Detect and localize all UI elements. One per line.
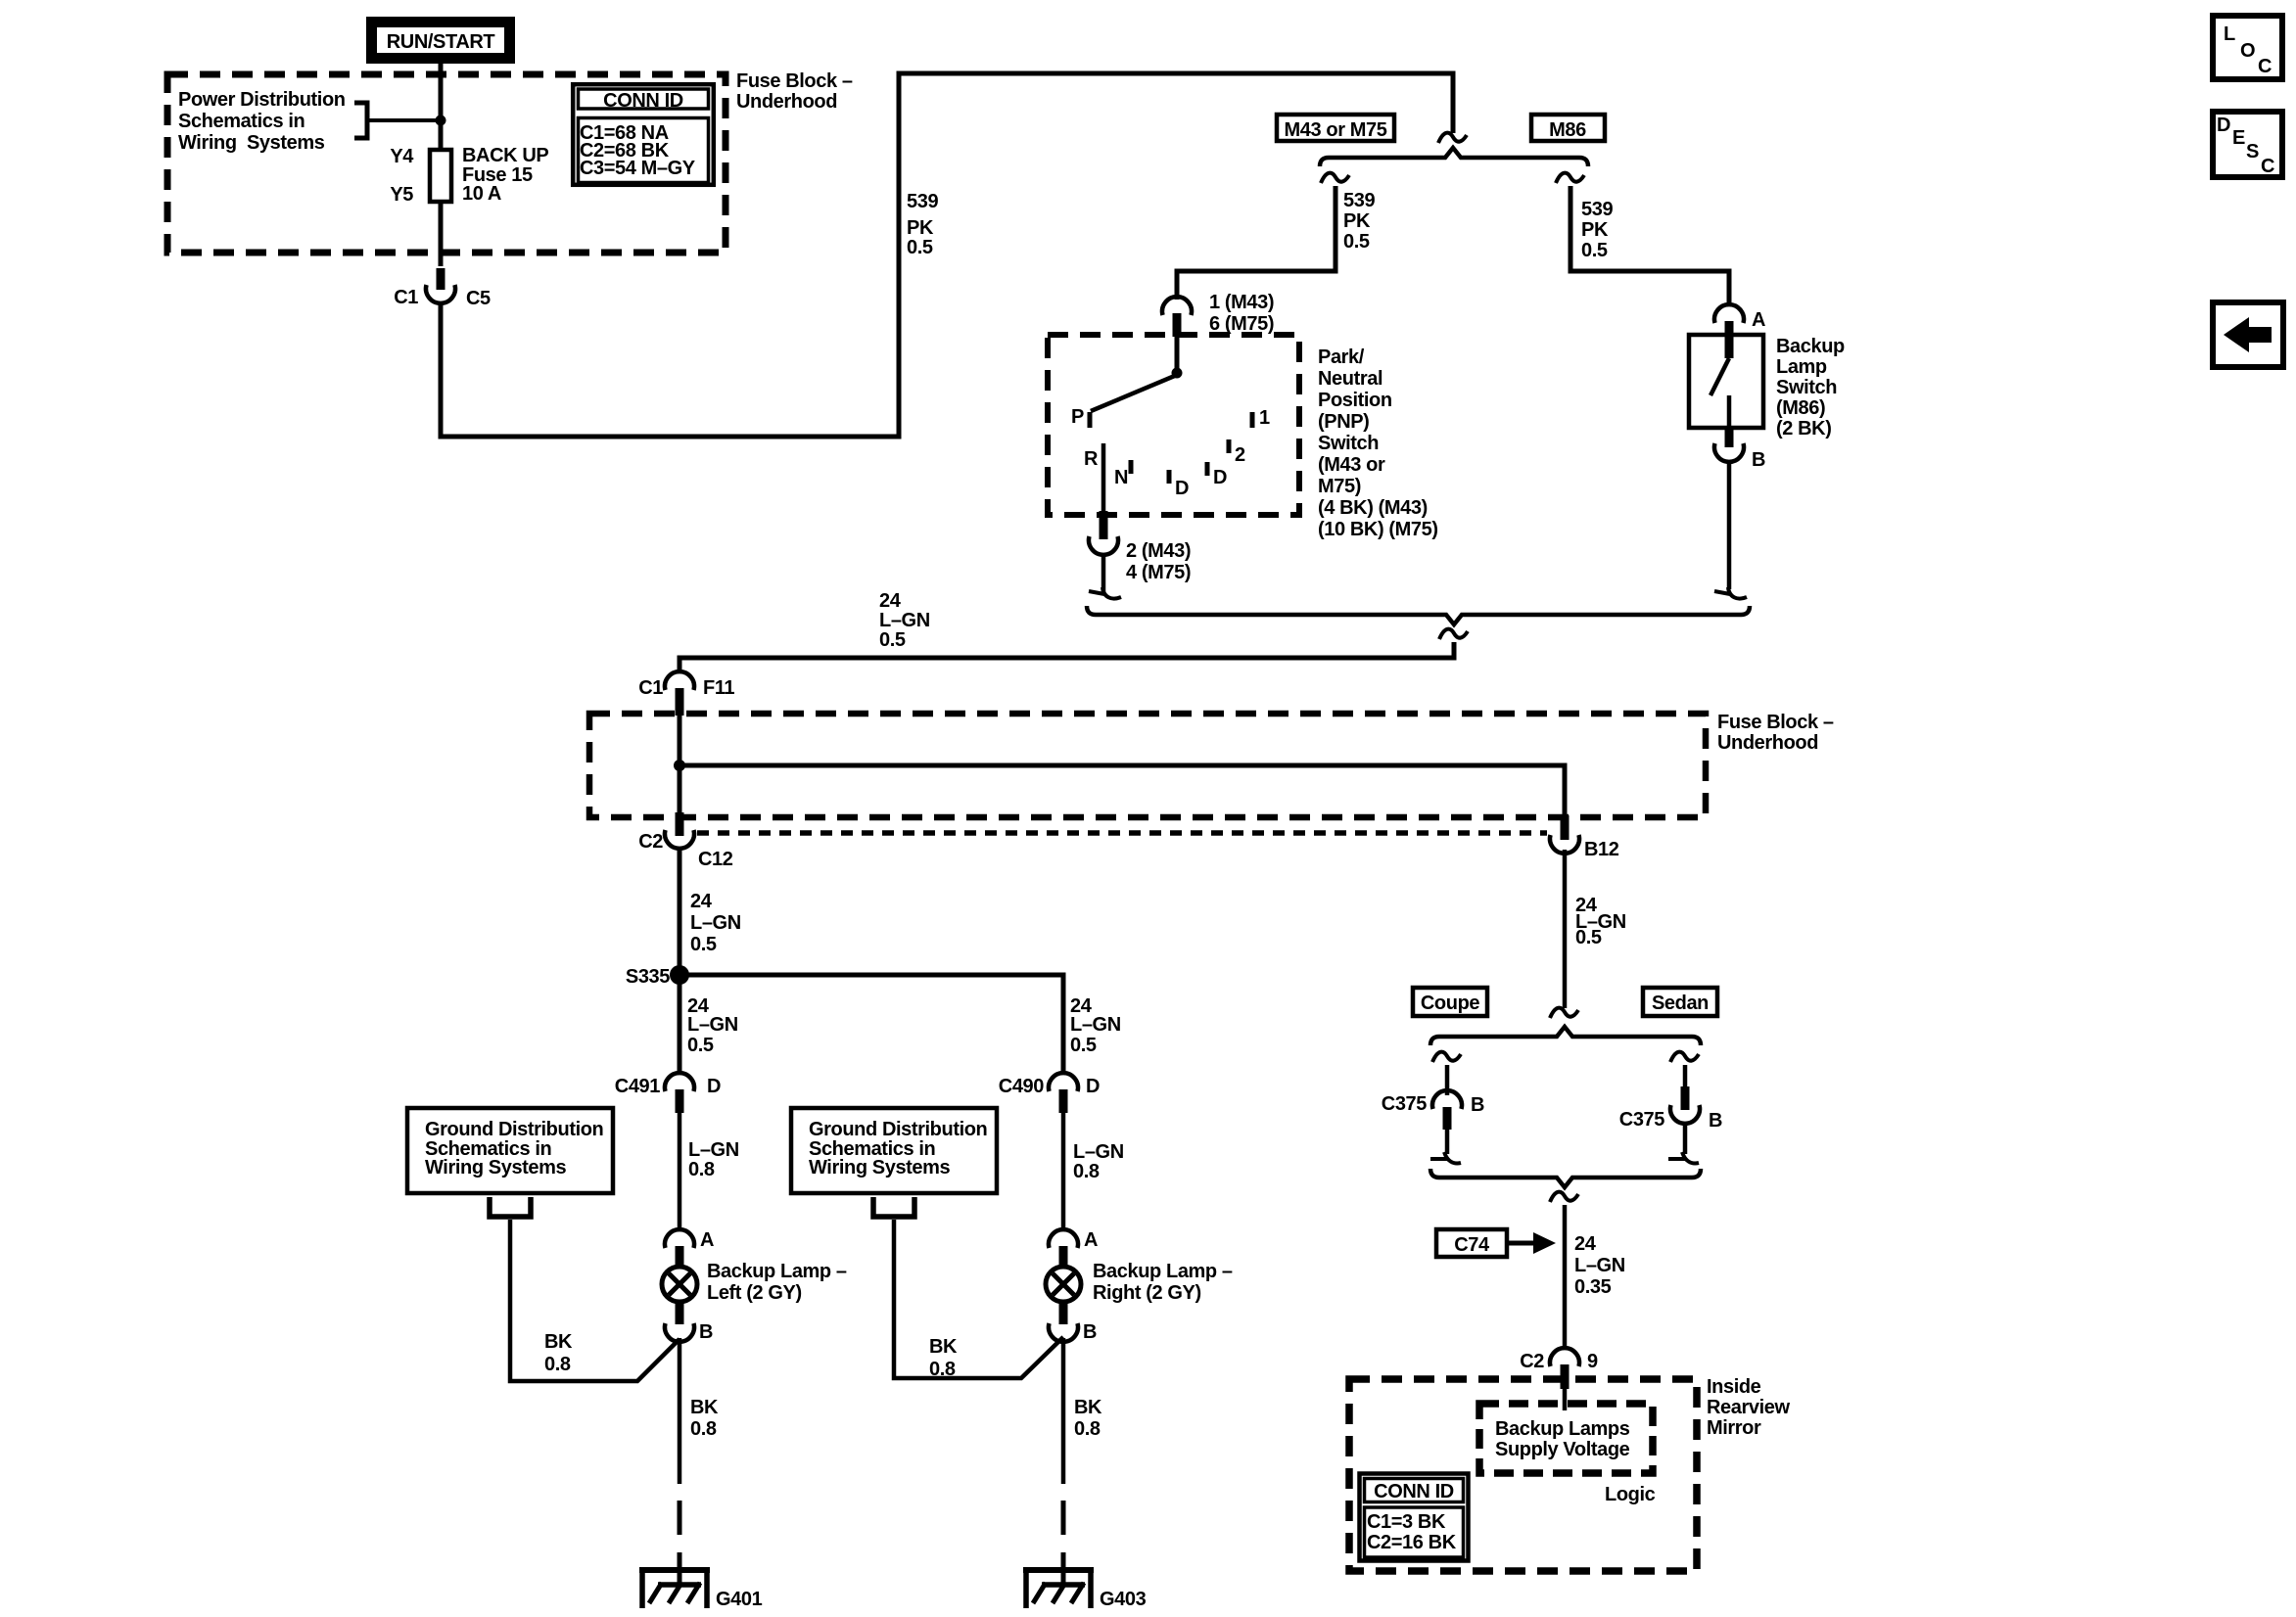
svg-text:R: R [1084,448,1099,470]
svg-text:M43 or M75: M43 or M75 [1285,119,1387,141]
brace splitting to M43/M75 and M86 [1320,148,1588,166]
svg-text:D: D [1213,467,1227,488]
wire B12 to coupe/sedan split [1563,850,1568,1008]
pin below C490 [1059,1089,1068,1113]
pin above C2/C12 [676,812,684,836]
svg-text:Position: Position [1318,390,1392,411]
wire right lamp B to ground [1061,1338,1066,1484]
wire label L-GN 0.8 (left) [688,1139,739,1180]
svg-text:Y4: Y4 [390,146,414,167]
squiggle at left branch start [1321,173,1349,183]
svg-text:L–GN: L–GN [687,1014,738,1036]
svg-text:539: 539 [1581,199,1613,220]
svg-text:2: 2 [1235,444,1245,466]
squiggle sedan branch [1670,1052,1699,1062]
merge brace coupe/sedan [1430,1169,1701,1187]
svg-text:0.8: 0.8 [690,1418,717,1440]
svg-text:B: B [699,1321,713,1343]
connector A (left lamp) [665,1229,714,1251]
svg-text:PK: PK [1581,219,1609,241]
contact D (second) [1205,462,1210,476]
merge brace to single wire [1087,606,1750,624]
wire fuse to connector C1/C5 [439,202,444,266]
wire into switch [1175,337,1180,370]
svg-text:2 (M43): 2 (M43) [1126,540,1191,562]
end hook of switch wire [1714,587,1747,599]
wire coupe C375 down [1445,1130,1450,1154]
svg-text:Switch: Switch [1318,433,1379,454]
svg-text:L–GN: L–GN [688,1139,739,1161]
wire left branch to PNP switch [1177,186,1335,300]
connector C2 9 (mirror) [1520,1348,1598,1372]
svg-text:0.5: 0.5 [690,934,717,955]
connector B (left lamp) [665,1321,713,1343]
svg-text:0.5: 0.5 [907,237,933,258]
pin below right lamp [1059,1302,1068,1324]
pin below C491 [676,1089,684,1113]
dashed wire to G401 [678,1501,682,1535]
wire label BK 0.8 (left ground lead) [690,1397,719,1440]
connector 1 (M43) 6 (M75) [1162,292,1274,335]
svg-text:Schematics in: Schematics in [178,111,305,132]
svg-text:L–GN: L–GN [879,610,930,631]
svg-text:D: D [1175,478,1189,499]
wire C12 to S335 [678,850,682,969]
svg-text:(2 BK): (2 BK) [1776,418,1832,439]
svg-text:BK: BK [1074,1397,1102,1418]
note Power Distribution Schematics in Wiring Systems [178,89,346,154]
inside rearview mirror dashed box [1349,1379,1697,1571]
LOC reference box [2213,16,2282,79]
wire label 539 PK 0.5 (left branch) [1343,190,1375,253]
svg-text:PK: PK [1343,210,1371,232]
svg-text:(M43 or: (M43 or [1318,454,1385,476]
end hook sedan wire [1668,1152,1699,1164]
svg-text:C491: C491 [615,1076,660,1097]
svg-text:C1=3 BK: C1=3 BK [1367,1511,1446,1533]
svg-text:Mirror: Mirror [1707,1417,1761,1439]
svg-text:D: D [2217,115,2230,136]
svg-text:Underhood: Underhood [736,91,837,113]
contact D (first) [1167,470,1172,484]
contact 1 [1250,412,1255,428]
backup lamp switch box M86 [1689,335,1763,428]
svg-text:Ground Distribution: Ground Distribution [425,1119,603,1140]
svg-text:0.8: 0.8 [1074,1418,1101,1440]
svg-text:O: O [2240,40,2256,62]
pin above B12 [1561,815,1570,840]
label Backup Lamp Switch (M86) (2 BK) [1776,336,1845,439]
pin below C1/F11 [676,688,684,716]
switch blade [1710,358,1729,395]
pin above right lamp [1059,1246,1068,1267]
label Fuse Block - Underhood (middle) [1717,712,1834,754]
contact N [1129,460,1134,474]
svg-text:C490: C490 [999,1076,1044,1097]
svg-text:N: N [1114,467,1128,488]
svg-text:0.8: 0.8 [544,1354,571,1375]
bracket below left ground note [490,1197,531,1217]
wire merge to C2/9 [1563,1205,1568,1349]
junction dot in fuse block [674,760,685,771]
svg-text:24: 24 [879,590,902,612]
connector C491 D [615,1073,721,1097]
wire branch to B12 [679,765,1565,815]
svg-text:A: A [1084,1229,1098,1251]
pin above sedan C375 [1681,1086,1690,1110]
wire C491 to lamp A [678,1113,682,1231]
svg-text:0.5: 0.5 [879,629,906,651]
svg-text:Power Distribution: Power Distribution [178,89,346,111]
backup lamps supply voltage dashed box [1479,1404,1653,1473]
svg-text:Supply Voltage: Supply Voltage [1495,1439,1630,1460]
svg-text:Wiring Systems: Wiring Systems [178,132,325,154]
svg-text:9: 9 [1587,1351,1598,1372]
svg-text:BACK UP: BACK UP [462,145,548,166]
svg-text:Ground Distribution: Ground Distribution [809,1119,987,1140]
switch lower contact [1727,395,1732,428]
wire label L-GN 0.8 (right) [1073,1141,1124,1182]
label Park/Neutral Position (PNP) Switch [1318,346,1438,540]
svg-text:24: 24 [1574,1233,1597,1255]
label box M86 [1531,115,1605,141]
label box Sedan [1643,988,1717,1016]
ground G403 [1023,1567,1147,1610]
svg-text:Sedan: Sedan [1652,993,1709,1014]
svg-text:A: A [1752,309,1765,331]
note box Ground Distribution (left) [407,1108,613,1193]
splice S335 [626,965,689,988]
wire right branch to backup lamp switch [1570,186,1729,305]
connector B12 [1550,835,1619,860]
svg-text:B: B [1083,1321,1097,1343]
ground G401 [639,1567,763,1610]
wire S335 branch to right lamp [679,975,1063,1073]
svg-text:Fuse Block –: Fuse Block – [1717,712,1834,733]
svg-text:Rearview: Rearview [1707,1397,1790,1418]
svg-text:M75): M75) [1318,476,1361,497]
svg-text:C1: C1 [394,287,418,308]
svg-text:BK: BK [544,1331,573,1353]
svg-text:539: 539 [1343,190,1375,211]
svg-text:C2=16 BK: C2=16 BK [1367,1532,1457,1553]
svg-text:C2: C2 [638,831,663,853]
wire through middle fuse block [678,716,682,812]
wire right ground note to lamp B [894,1220,1063,1378]
svg-text:Backup Lamp –: Backup Lamp – [707,1261,847,1282]
svg-text:6 (M75): 6 (M75) [1209,313,1274,335]
pin below PNP switch [1100,511,1108,539]
squiggle below merge brace [1550,1192,1578,1202]
squiggle coupe branch [1432,1052,1461,1062]
svg-text:BK: BK [690,1397,719,1418]
label box M43 or M75 [1277,115,1394,141]
svg-text:C12: C12 [698,849,733,870]
svg-text:Backup: Backup [1776,336,1845,357]
svg-text:C1: C1 [638,677,663,699]
svg-text:CONN ID: CONN ID [1374,1481,1454,1502]
svg-text:1 (M43): 1 (M43) [1209,292,1274,313]
wire from switch B down [1727,463,1732,589]
label Inside Rearview Mirror [1707,1376,1790,1439]
pin below coupe C375 [1443,1107,1452,1130]
wire coupe branch [1445,1065,1450,1095]
svg-text:Park/: Park/ [1318,346,1365,368]
wire C5 to top bus and over to split [441,73,1453,437]
svg-text:Wiring Systems: Wiring Systems [425,1157,567,1178]
svg-text:Fuse Block –: Fuse Block – [736,70,853,92]
svg-text:C74: C74 [1454,1234,1490,1256]
pin below backup lamp switch [1725,428,1734,447]
svg-text:L–GN: L–GN [1574,1255,1625,1276]
svg-text:CONN ID: CONN ID [603,90,683,112]
connector C375 B (coupe) [1382,1090,1484,1116]
bracket from note to wire [354,103,441,138]
svg-text:F11: F11 [703,677,734,699]
wire label 539 PK 0.5 (feed) [907,191,938,258]
svg-text:0.5: 0.5 [1343,231,1370,253]
svg-text:(4 BK) (M43): (4 BK) (M43) [1318,497,1428,519]
CONN ID table (mirror) [1360,1474,1469,1561]
bracket below right ground note [873,1197,914,1217]
svg-text:D: D [1086,1076,1100,1097]
junction dot at fuse feed [436,115,446,126]
power source box RUN/START [370,21,511,60]
connector B at backup lamp switch [1714,443,1765,471]
svg-text:1: 1 [1259,407,1270,429]
pin above left lamp [676,1246,684,1267]
fuse block underhood dashed box (top) [167,74,726,253]
label Backup Lamp - Left (2 GY) [707,1261,847,1304]
svg-text:24: 24 [690,891,713,912]
end hook of PNP wire [1089,587,1121,599]
svg-text:10 A: 10 A [462,183,501,205]
dotted connector line C12 to B12 [697,830,1547,836]
svg-text:C2: C2 [1520,1351,1544,1372]
label Backup Lamp - Right (2 GY) [1093,1261,1233,1304]
wire label 24 L-GN 0.35 [1574,1233,1625,1298]
svg-text:BK: BK [929,1336,958,1358]
connector B (right lamp) [1049,1321,1097,1343]
connector A (right lamp) [1049,1229,1098,1251]
svg-text:C: C [2261,156,2274,177]
svg-text:M86: M86 [1549,119,1586,141]
wire from PNP connector down [1101,554,1106,595]
wire label 24 L-GN 0.5 (left lamp) [687,995,738,1056]
label box Coupe [1413,988,1487,1016]
wire left ground note to lamp B [510,1220,679,1381]
svg-text:Coupe: Coupe [1421,993,1479,1014]
svg-text:0.5: 0.5 [687,1035,714,1056]
wire label 539 PK 0.5 (right branch) [1581,199,1613,261]
svg-text:Y5: Y5 [390,184,413,206]
svg-text:0.8: 0.8 [929,1359,956,1380]
svg-text:PK: PK [907,217,934,239]
label box C74 with arrow [1436,1229,1556,1257]
wire label BK 0.8 (right ground lead) [1074,1397,1102,1440]
connector C375 B (sedan) [1619,1105,1722,1132]
svg-text:S: S [2246,141,2259,162]
connector 2 (M43) 4 (M75) [1089,536,1191,583]
contact P [1088,412,1093,428]
wire label 24 L-GN 0.5 (C12) [690,891,741,955]
pin at C1/C5 [437,268,445,290]
backup lamp - left [662,1267,697,1302]
svg-text:0.35: 0.35 [1574,1276,1612,1298]
svg-text:0.5: 0.5 [1070,1035,1097,1056]
svg-text:Switch: Switch [1776,377,1837,398]
svg-text:C: C [2258,56,2272,77]
svg-text:P: P [1071,406,1084,428]
wire label 24 L-GN 0.5 (right lamp) [1070,995,1121,1056]
PNP switch dashed box [1048,335,1299,515]
svg-text:0.5: 0.5 [1575,927,1602,948]
svg-text:539: 539 [907,191,938,212]
connector C2/C12 [638,830,733,870]
crossover squiggle at bus split [1438,133,1467,143]
switch arm to P [1091,375,1177,411]
squiggle above coupe/sedan brace [1550,1008,1578,1018]
svg-text:C375: C375 [1619,1109,1664,1131]
DESC reference box [2213,112,2282,177]
label Fuse Block - Underhood (top) [736,70,853,113]
svg-text:A: A [700,1229,714,1251]
connector C1/C5 [394,285,491,309]
svg-text:Wiring Systems: Wiring Systems [809,1157,951,1178]
svg-text:0.8: 0.8 [1073,1161,1100,1182]
label Backup Lamps Supply Voltage [1495,1418,1630,1460]
connector A at backup lamp switch [1714,304,1765,331]
svg-text:L–GN: L–GN [690,912,741,934]
split brace coupe/sedan [1430,1027,1701,1045]
wire sedan C375 down [1683,1122,1688,1154]
svg-text:L–GN: L–GN [1073,1141,1124,1163]
wire RUN/START to fuse [439,60,444,148]
backup lamp - right [1046,1267,1081,1302]
pin below C2/9 [1561,1364,1570,1389]
svg-text:Backup Lamp –: Backup Lamp – [1093,1261,1233,1282]
svg-text:0.8: 0.8 [688,1159,715,1180]
svg-text:E: E [2232,127,2245,149]
svg-text:Underhood: Underhood [1717,732,1818,754]
note box Ground Distribution (right) [791,1108,997,1193]
svg-text:S335: S335 [626,966,670,988]
svg-text:B: B [1471,1094,1484,1116]
svg-text:B12: B12 [1584,839,1619,860]
squiggle below merge brace [1439,629,1468,639]
wire left lamp B to ground [678,1338,682,1484]
fuse block underhood dashed box (middle) [589,714,1706,817]
squiggle at right branch start [1556,173,1584,183]
svg-text:4 (M75): 4 (M75) [1126,562,1191,583]
dashed wire to G403 [1061,1501,1066,1535]
back arrow box [2213,302,2283,367]
pin below left lamp [676,1302,684,1324]
svg-text:L: L [2224,23,2235,45]
pin into PNP switch [1173,313,1182,337]
svg-text:B: B [1752,449,1765,471]
wire S335 down left lamp [678,975,682,1073]
fuse BACK UP Fuse 15 10A [430,150,451,202]
svg-text:B: B [1709,1110,1722,1132]
svg-text:RUN/START: RUN/START [387,31,495,53]
wire label BK 0.8 (right bend) [929,1336,958,1380]
svg-text:Lamp: Lamp [1776,356,1827,378]
svg-text:L–GN: L–GN [1070,1014,1121,1036]
svg-text:Logic: Logic [1605,1484,1656,1505]
connector C490 D [999,1073,1100,1097]
svg-text:Neutral: Neutral [1318,368,1382,390]
wire label 24 L-GN 0.5 (to F11) [879,590,930,651]
contact R wire through box [1101,443,1106,515]
contact 2 [1227,439,1232,453]
svg-text:(10 BK) (M75): (10 BK) (M75) [1318,519,1438,540]
end hook coupe wire [1430,1152,1461,1164]
wire merge to C1/F11 [679,642,1454,673]
wire sedan branch [1683,1065,1688,1088]
svg-text:(PNP): (PNP) [1318,411,1369,433]
svg-text:Inside: Inside [1707,1376,1761,1398]
svg-text:G401: G401 [716,1589,763,1610]
svg-text:0.5: 0.5 [1581,240,1608,261]
CONN ID table (fuse block underhood) [573,84,714,185]
wire label 24 L-GN 0.5 (B12) [1575,895,1626,948]
svg-text:Right (2 GY): Right (2 GY) [1093,1282,1201,1304]
svg-text:C5: C5 [466,288,491,309]
svg-text:(M86): (M86) [1776,397,1825,419]
fuse value label [462,145,548,205]
junction dot in PNP switch [1172,368,1183,379]
svg-text:G403: G403 [1100,1589,1147,1610]
svg-text:C3=54 M–GY: C3=54 M–GY [580,158,696,179]
svg-text:D: D [707,1076,721,1097]
wire C490 to lamp A [1061,1113,1066,1231]
wire into mirror [1563,1389,1568,1410]
connector C1/F11 [638,671,734,699]
svg-text:Left (2 GY): Left (2 GY) [707,1282,802,1304]
wire label BK 0.8 (left bend) [544,1331,573,1375]
pin into backup lamp switch [1725,321,1734,358]
svg-text:C375: C375 [1382,1093,1427,1115]
svg-text:Backup Lamps: Backup Lamps [1495,1418,1630,1440]
